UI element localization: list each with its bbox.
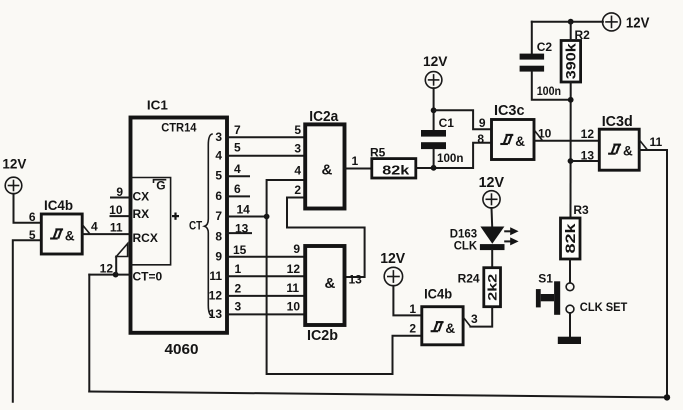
svg-text:6: 6 [215,189,222,203]
resistor R2 [561,41,581,83]
wire IC1 pin3 to IC2b pin10 [227,313,305,315]
resistor R24 [484,268,501,307]
svg-text:CTR14: CTR14 [161,121,197,135]
svg-text:15: 15 [233,243,247,257]
svg-text:2: 2 [409,322,416,336]
svg-text:1: 1 [235,262,242,276]
wire node to IC3d pin13 [571,160,600,162]
ground bar [558,337,581,344]
svg-text:&: & [65,229,75,244]
IC4b output wedge (oscillator gate) [82,225,90,234]
svg-text:9: 9 [215,250,222,264]
svg-text:R2: R2 [575,28,591,42]
svg-text:6: 6 [29,210,36,224]
IC3d output wedge [639,140,647,150]
IC1 plus sign [172,213,179,220]
svg-text:CT=0: CT=0 [133,270,163,284]
svg-text:10: 10 [538,127,552,141]
svg-text:5: 5 [234,141,241,155]
wire C1 top node to IC3c pin9 [434,110,492,129]
svg-text:8: 8 [215,230,222,244]
top supply wire [532,21,603,23]
svg-text:3: 3 [235,300,242,314]
wire vertical from IC2a pin4 down to bottom route [267,180,422,374]
IC3c gate body [492,120,535,160]
capacitor C2 top plate [520,54,545,60]
LED D163 cathode bar [480,244,505,250]
switch S1 plunger cap [536,289,541,307]
IC3d gate body [599,129,639,170]
12V supply for C1 [425,72,442,89]
IC4b gate body (clock gate) [422,307,463,345]
switch S1 plunger stem [541,294,554,301]
wire IC1 pin14 to node [227,216,267,218]
wire IC3d output down right side to bottom rail [639,150,667,397]
IC2b gate body [305,246,344,325]
capacitor C1 bottom plate [421,142,446,149]
IC1 outside pin numbers [233,123,250,314]
svg-text:&: & [445,321,455,336]
wire IC4b output 4 to IC1 RCX pin 11 [82,233,130,235]
svg-text:12: 12 [287,262,301,276]
12V supply for IC4b pin1 [384,267,402,285]
12V supply for LED [483,191,500,208]
wire C1 bottom to node [433,149,435,168]
svg-text:3: 3 [215,130,222,144]
wire IC3c output to IC3d pin12 [534,140,599,142]
IC3c schmitt symbol [500,135,513,144]
svg-text:13: 13 [581,149,595,163]
svg-text:4060: 4060 [165,341,199,358]
wire IC1 pin12 horizontal [89,274,130,276]
resistor R3 [561,218,581,259]
svg-text:11: 11 [209,269,222,283]
node junction IC3d pin13 [568,158,574,164]
12V supply top left [5,177,22,194]
svg-text:3: 3 [471,312,478,326]
wire 12V to LED [491,208,494,227]
wire C2 bottom to R2 bottom node [532,72,571,100]
svg-text:82k: 82k [563,223,578,254]
IC4b schmitt symbol (clock gate) [431,322,444,331]
wire 12V to C1 top [433,88,435,130]
IC1 pin6 stub wire [227,195,249,197]
svg-text:5: 5 [215,169,222,183]
svg-text:&: & [623,144,633,159]
svg-text:11: 11 [110,221,123,235]
IC1 CT output brace [205,134,213,316]
wire R3 to switch top contact [569,259,571,283]
svg-text:390k: 390k [564,43,579,80]
svg-text:IC3d: IC3d [602,114,633,130]
svg-text:&: & [322,162,333,179]
IC1 pin 9 stub wire [111,197,131,199]
svg-text:4: 4 [215,149,222,163]
svg-text:11: 11 [650,135,663,149]
IC3c output wedge [534,130,543,141]
12V supply top right [603,13,621,31]
IC1 inside pin column numbers [209,130,223,321]
node junction bottom right corner [664,394,670,400]
IC1 pin13 stub wire [227,232,251,234]
wire R2 top [570,22,572,41]
LED D163 triangle [480,227,504,244]
IC1 pin12 dynamic-edge triangle [116,244,127,257]
svg-text:IC4b: IC4b [44,197,73,213]
svg-text:R3: R3 [573,203,589,217]
svg-text:12: 12 [581,127,595,141]
svg-text:RCX: RCX [133,231,158,245]
svg-text:6: 6 [234,182,241,196]
svg-text:4: 4 [294,164,301,178]
svg-text:IC2a: IC2a [309,109,339,125]
capacitor C2 bottom plate [520,66,545,72]
IC2a gate body [305,124,344,208]
wire IC2a output to R5 [345,168,372,170]
svg-text:82k: 82k [382,163,410,178]
svg-text:R5: R5 [370,146,386,160]
IC4b schmitt symbol (oscillator gate) [50,229,63,238]
svg-text:12V: 12V [2,157,26,172]
svg-text:9: 9 [479,116,486,130]
svg-text:13: 13 [349,273,363,287]
wire 12V to IC4b pin6 [14,194,42,223]
wire pin12 down to bottom rail [88,275,90,392]
svg-text:10: 10 [109,203,123,217]
svg-text:IC2b: IC2b [307,328,338,344]
svg-text:&: & [515,134,525,149]
wire pin12 node up to dynamic triangle [115,257,117,275]
node junction at pin14 vertical [264,214,270,220]
wire R24 bottom to IC4b output 3 [470,307,492,327]
svg-text:12V: 12V [380,251,405,267]
wire IC4b pin5 down left side [13,240,42,401]
IC4b gate body (oscillator gate) [41,214,82,254]
svg-text:11: 11 [286,281,299,295]
wire LED to R24 [491,250,493,268]
node junction top wire / R2 [568,19,574,25]
svg-text:3: 3 [294,142,301,156]
svg-text:2: 2 [235,282,242,296]
svg-text:12V: 12V [626,16,650,32]
wire R5 to C1 node and IC3c pin8 [416,143,492,168]
switch S1 actuator bar [554,281,560,315]
wire IC1 pin1 to IC2b pin12 [227,275,305,277]
node junction R2 bottom [568,97,574,103]
svg-text:12: 12 [209,289,223,303]
svg-text:C1: C1 [439,116,455,130]
switch S1 bottom contact [566,305,574,313]
svg-text:4: 4 [91,220,98,234]
wire IC1 pin5 to IC2a pin3 [227,155,305,157]
svg-text:&: & [325,275,336,292]
wire C2 column [531,22,533,54]
node junction R5/C1 [431,165,437,171]
LED light arrow 2 [505,237,518,245]
wire 12V to IC4b pin1 [393,286,421,316]
svg-text:8: 8 [477,132,484,146]
IC4b output wedge (clock gate) [463,317,470,326]
wire IC1 pin7 to IC2a pin5 [227,136,305,138]
svg-text:1: 1 [352,154,359,168]
capacitor C1 top plate [421,130,446,137]
svg-text:IC1: IC1 [147,97,168,112]
bottom rail wire [89,392,667,398]
svg-text:CX: CX [133,190,150,204]
svg-text:CLK SET: CLK SET [580,300,628,314]
node junction at C1 top [431,107,437,113]
svg-text:IC4b: IC4b [424,286,452,302]
IC2a pin2 loop wire to IC2b output 13 [287,198,365,278]
wire IC1 pin15 to IC2b pin9 [227,256,305,258]
node junction pin12 [113,272,119,278]
switch S1 top contact [566,283,574,291]
IC3d schmitt symbol [608,145,621,154]
svg-text:CT: CT [189,219,203,233]
IC1 pin4 stub wire [227,175,249,177]
wire IC1 pin2 to IC2b pin11 [227,295,305,297]
svg-text:10: 10 [287,300,301,314]
wire bottom contact to ground [569,313,571,337]
svg-text:CLK: CLK [454,239,478,253]
svg-text:100n: 100n [537,84,561,98]
svg-text:12V: 12V [423,53,448,69]
svg-text:5: 5 [29,228,36,242]
IC1 pin 10 stub wire [111,215,131,217]
svg-text:9: 9 [293,242,300,256]
svg-text:IC3c: IC3c [494,103,525,119]
svg-text:R24: R24 [458,272,480,286]
svg-text:RX: RX [133,207,150,221]
svg-text:5: 5 [294,123,301,137]
svg-text:12: 12 [100,262,114,276]
svg-text:13: 13 [209,307,223,321]
svg-text:100n: 100n [437,151,464,165]
svg-text:2: 2 [294,183,301,197]
svg-text:4: 4 [234,162,241,176]
IC1 4060 counter body [131,118,228,333]
svg-text:12V: 12V [479,175,505,191]
LED light arrow 1 [505,227,518,235]
svg-text:C2: C2 [537,40,553,54]
resistor R5 [372,159,416,178]
svg-text:G: G [156,179,165,193]
svg-text:1: 1 [409,302,416,316]
svg-text:7: 7 [215,209,222,223]
IC1 oscillator sub-box [131,178,171,265]
wire R2 bottom to R3 [570,82,572,218]
svg-text:S1: S1 [538,272,553,286]
svg-text:2k2: 2k2 [486,273,500,300]
svg-text:14: 14 [237,203,251,217]
svg-text:7: 7 [234,123,241,137]
